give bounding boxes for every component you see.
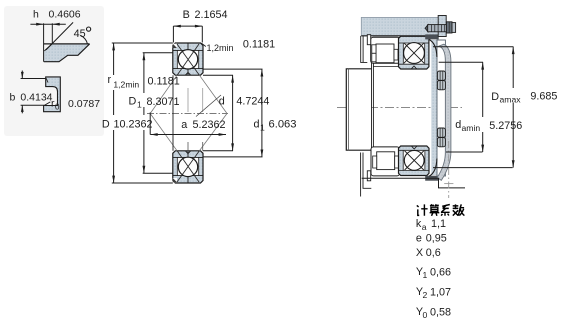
- b arrow bottom: [21, 106, 23, 114]
- split wedge top: [185, 72, 190, 75]
- snap ring post top: [367, 35, 370, 45]
- bolt top: [425, 25, 428, 32]
- svg-text:D: D: [102, 119, 110, 131]
- snap ring notch top-left: [173, 44, 177, 48]
- svg-text:5.2756: 5.2756: [489, 120, 522, 132]
- svg-text:2.1654: 2.1654: [195, 9, 228, 21]
- contact lines through balls: [177, 44, 199, 182]
- svg-text:5.2362: 5.2362: [193, 119, 226, 131]
- svg-text:1: 1: [260, 123, 265, 133]
- nut lower: [437, 128, 445, 137]
- sleeve assembly bottom: [371, 147, 400, 176]
- split wedge: [411, 146, 417, 149]
- svg-text:8.3071: 8.3071: [147, 96, 180, 108]
- svg-text:D: D: [129, 96, 137, 108]
- b dim top line: [21, 78, 47, 80]
- svg-text:1,2min: 1,2min: [113, 80, 139, 90]
- svg-text:0.1181: 0.1181: [243, 39, 275, 51]
- groove detail blue section: [44, 44, 90, 62]
- svg-text:9.685: 9.685: [530, 91, 557, 103]
- svg-text:d: d: [254, 119, 260, 131]
- bore surface line: [44, 43, 90, 45]
- groove detail outline: [44, 44, 90, 62]
- svg-text:45: 45: [74, 28, 86, 40]
- ji: [417, 204, 428, 215]
- flange gray band: [437, 44, 451, 180]
- svg-text:a: a: [422, 222, 427, 232]
- svg-text:B: B: [183, 9, 190, 21]
- ball bottom: [178, 157, 197, 176]
- svg-text:d: d: [455, 119, 461, 131]
- xi: [441, 205, 450, 216]
- dimension B: [173, 26, 202, 42]
- 45deg arc: [80, 35, 87, 43]
- left details light panel: [4, 6, 104, 136]
- housing bottom outline: [362, 178, 465, 188]
- svg-text:0,66: 0,66: [430, 267, 451, 279]
- svg-text:r: r: [108, 74, 112, 86]
- chamfer edge 45deg: [44, 44, 51, 51]
- svg-text:d: d: [219, 96, 225, 108]
- dimension a: [149, 113, 151, 135]
- split wedge bottom: [185, 151, 190, 154]
- flange top plate: [438, 16, 446, 37]
- dimension Damax: [433, 47, 513, 168]
- svg-text:amin: amin: [462, 123, 481, 133]
- svg-text:b: b: [10, 91, 16, 103]
- bearing bottom right: [399, 146, 430, 176]
- sleeve assembly top: [371, 37, 400, 63]
- dimension d: [203, 75, 233, 151]
- svg-text:1: 1: [137, 100, 142, 110]
- svg-text:e: e: [416, 233, 422, 245]
- extension line h left: [43, 23, 45, 61]
- housing left wall top: [361, 36, 368, 63]
- shaft: [346, 69, 371, 150]
- top section ring: [173, 43, 203, 75]
- snap ring section: [44, 77, 61, 112]
- snap bar top right: [425, 34, 439, 39]
- svg-text:1,07: 1,07: [430, 287, 451, 299]
- split line bottom: [187, 151, 189, 157]
- ball top: [178, 50, 197, 69]
- contact line extensions: [150, 75, 227, 151]
- 计算系数 heading (hand-drawn CJK strokes): [417, 204, 465, 215]
- transition curve bottom: [429, 159, 437, 177]
- housing left wall bottom: [361, 153, 372, 197]
- snap bar bottom right: [425, 176, 439, 181]
- b dim bottom line: [21, 104, 45, 106]
- b arrow top: [21, 71, 23, 79]
- seat line top: [373, 66, 398, 68]
- snap ring notch bottom-left: [173, 178, 177, 182]
- split wedge: [411, 66, 417, 69]
- svg-text:h: h: [33, 9, 39, 21]
- bolt head: [446, 22, 452, 33]
- leader d: [196, 95, 221, 117]
- svg-text:0.4134: 0.4134: [20, 92, 52, 104]
- extension line h right: [51, 23, 53, 44]
- bottom section ring: [173, 151, 203, 183]
- svg-text:D: D: [491, 91, 499, 103]
- svg-text:0,6: 0,6: [426, 247, 441, 259]
- split line top: [187, 69, 189, 75]
- arrow h left: [36, 23, 43, 26]
- dimension damin: [439, 62, 483, 152]
- label 1,2min top right with leader: [202, 43, 206, 46]
- arrow h right: [52, 23, 59, 26]
- flange white section: [437, 40, 445, 176]
- svg-text:0.1181: 0.1181: [148, 76, 180, 88]
- transition curve top: [429, 40, 437, 58]
- svg-text:1,2min: 1,2min: [207, 43, 234, 53]
- raceway pocket bottom: [177, 157, 198, 175]
- svg-text:10.2362: 10.2362: [114, 119, 153, 131]
- svg-text:0.0787: 0.0787: [68, 98, 100, 110]
- svg-text:a: a: [181, 119, 187, 131]
- svg-text:0: 0: [55, 103, 60, 112]
- svg-text:2: 2: [423, 290, 428, 300]
- housing top: [361, 17, 438, 36]
- dimension line h: [30, 23, 65, 25]
- snap ring post bottom: [367, 171, 370, 181]
- shoulder step: [372, 63, 374, 153]
- r0 leader: [45, 102, 51, 105]
- svg-text:amax: amax: [500, 95, 522, 105]
- centerline: [337, 107, 462, 109]
- svg-text:0: 0: [423, 310, 428, 320]
- nut upper: [437, 71, 445, 80]
- svg-text:6.063: 6.063: [269, 119, 297, 131]
- svg-text:1,1: 1,1: [431, 218, 446, 230]
- blue column behind flange: [431, 40, 438, 175]
- 45deg reference line: [46, 22, 73, 50]
- shaft end inner line: [348, 69, 350, 150]
- svg-text:0.4606: 0.4606: [49, 9, 81, 21]
- center dash line: [147, 113, 228, 115]
- dimension D1: [143, 53, 173, 173]
- dimension D: [112, 43, 173, 183]
- shu: [453, 204, 465, 215]
- side faces through gap: [172, 75, 174, 151]
- suan: [430, 204, 440, 215]
- svg-text:1: 1: [423, 270, 428, 280]
- svg-text:X: X: [416, 247, 423, 259]
- svg-text:0,95: 0,95: [426, 233, 447, 245]
- svg-text:0,58: 0,58: [430, 307, 451, 319]
- bolt washer: [452, 23, 456, 33]
- bearing top right: [399, 36, 429, 69]
- raceway pocket top: [177, 50, 198, 68]
- dimension d1: [203, 69, 263, 157]
- svg-text:4.7244: 4.7244: [236, 96, 269, 108]
- bolt circle axis: [448, 141, 450, 198]
